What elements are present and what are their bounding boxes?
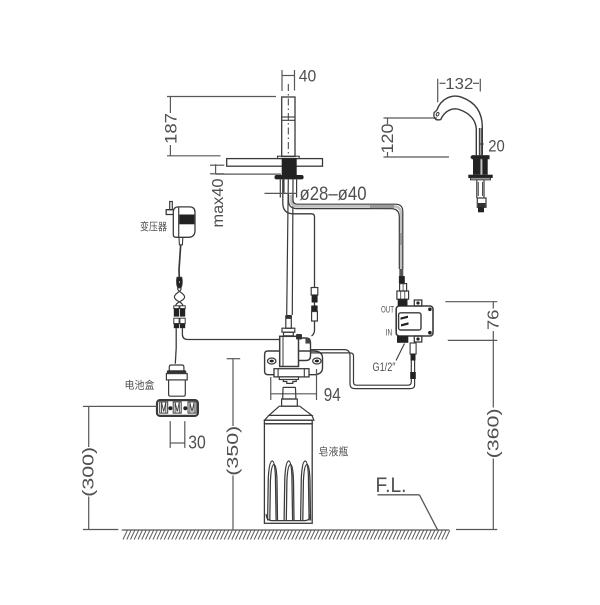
svg-text:94: 94 [324, 385, 341, 405]
svg-text:IN: IN [386, 328, 393, 338]
svg-text:40: 40 [299, 67, 317, 85]
svg-text:G1/2″: G1/2″ [373, 360, 397, 374]
svg-text:30: 30 [188, 432, 206, 452]
svg-text:132: 132 [445, 76, 473, 93]
svg-text:皂液瓶: 皂液瓶 [319, 445, 349, 458]
svg-text:电池盒: 电池盒 [125, 379, 155, 392]
svg-text:20: 20 [488, 138, 505, 156]
svg-text:F.L.: F.L. [376, 473, 407, 497]
svg-text:变压器: 变压器 [140, 220, 167, 233]
svg-text:OUT: OUT [381, 305, 394, 315]
svg-text:(360): (360) [485, 408, 502, 458]
svg-text:76: 76 [486, 310, 503, 331]
svg-text:(350): (350) [225, 426, 242, 476]
svg-text:ø28–ø40: ø28–ø40 [300, 184, 367, 205]
svg-text:(300): (300) [81, 447, 98, 497]
svg-text:max40: max40 [210, 178, 227, 227]
svg-text:187: 187 [162, 113, 181, 144]
svg-text:120: 120 [379, 124, 397, 154]
